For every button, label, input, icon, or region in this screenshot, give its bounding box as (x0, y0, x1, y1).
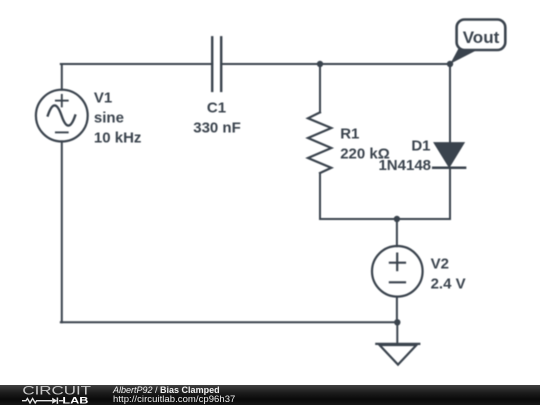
footer bar (0, 385, 540, 405)
diode D1 (433, 143, 465, 168)
svg-text:V1: V1 (94, 89, 112, 106)
voltage source V1 (36, 90, 88, 142)
svg-text:V2: V2 (431, 255, 449, 272)
wire top rail left (V1 to C1) (61, 63, 212, 65)
wire bottom ground rail (61, 321, 398, 323)
wire D1 bottom (449, 168, 451, 219)
CircuitLab logo (0, 384, 110, 405)
wire D1 top (449, 64, 451, 144)
svg-text:R1: R1 (340, 125, 359, 142)
wire R1 top (319, 64, 321, 112)
wire loop bottom rail (R1 to D1) (320, 218, 450, 220)
svg-text:2.4 V: 2.4 V (431, 275, 466, 292)
voltage source V2 (372, 246, 423, 297)
node label Vout callout (450, 20, 505, 64)
footer author / title (113, 385, 220, 395)
wire top rail right (C1 to Vout node) (221, 63, 450, 65)
svg-text:1N4148: 1N4148 (378, 157, 431, 174)
node junction ground rail (394, 319, 400, 325)
svg-text:LAB: LAB (62, 396, 89, 405)
svg-text:10 kHz: 10 kHz (94, 129, 142, 146)
wire V1 top vertical (61, 64, 63, 90)
ground symbol (376, 344, 419, 365)
svg-text:Vout: Vout (463, 28, 500, 47)
svg-text:330 nF: 330 nF (193, 119, 241, 136)
capacitor C1 (212, 37, 221, 91)
svg-text:C1: C1 (207, 100, 226, 117)
svg-text:D1: D1 (411, 137, 430, 154)
footer url (113, 395, 235, 405)
wire R1 bottom (319, 173, 321, 219)
wire V2 top (396, 219, 398, 246)
wire V2 bottom (396, 297, 398, 323)
wire V1 bottom vertical (61, 141, 63, 322)
node junction Vout (447, 61, 453, 67)
node junction R1 top (317, 61, 323, 67)
resistor R1 (308, 112, 331, 173)
wire ground stem (396, 322, 398, 344)
node junction V2 top (394, 216, 400, 222)
svg-text:sine: sine (94, 109, 124, 126)
